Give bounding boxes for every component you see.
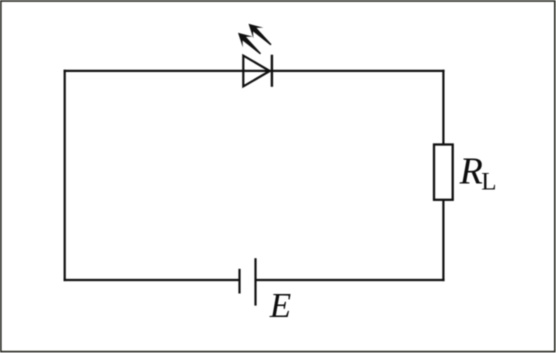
LED D1 cathode bar [271, 55, 273, 87]
resistor RL body [434, 145, 453, 200]
LED emission arrow (upper) [243, 18, 276, 50]
battery E short plate (negative) [238, 269, 240, 294]
battery E long plate (positive) [254, 258, 256, 305]
wire: left side of loop [64, 70, 66, 281]
svg-text:R: R [459, 150, 483, 192]
wire: bottom-right segment from battery [256, 279, 445, 281]
svg-text:E: E [269, 286, 291, 325]
LED D1 triangle (anode) [243, 56, 269, 87]
wire: right side of loop [442, 70, 444, 281]
wire: top side of loop [64, 70, 445, 72]
svg-text:L: L [481, 169, 496, 196]
wire: bottom-left segment to battery [64, 279, 240, 281]
LED emission arrow (lower) [233, 27, 266, 59]
